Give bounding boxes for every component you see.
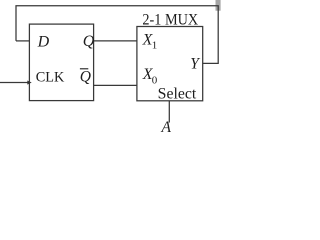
2-1 MUX box U2 [137, 27, 203, 101]
svg-text:2-1 MUX: 2-1 MUX [142, 11, 198, 28]
wire Select input [168, 101, 170, 123]
svg-text:Q: Q [83, 33, 95, 50]
svg-text:Select: Select [158, 86, 197, 103]
svg-text:A: A [161, 119, 172, 136]
svg-text:Y: Y [190, 55, 200, 72]
grey cursor artifact [216, 0, 221, 11]
svg-text:CLK: CLK [36, 69, 65, 85]
wire feedback Y to D (top loop) [16, 6, 218, 64]
wire Qbar to X0 [94, 84, 137, 86]
clock edge triangle [27, 81, 31, 85]
svg-text:Q: Q [80, 69, 91, 86]
wire CLK input [0, 82, 29, 84]
Qbar overline [80, 68, 88, 70]
D flip-flop box U1 [29, 24, 93, 101]
svg-text:D: D [37, 33, 50, 50]
svg-text:1: 1 [152, 39, 158, 51]
wire Q to X1 [94, 40, 137, 42]
wire D input [16, 40, 29, 42]
